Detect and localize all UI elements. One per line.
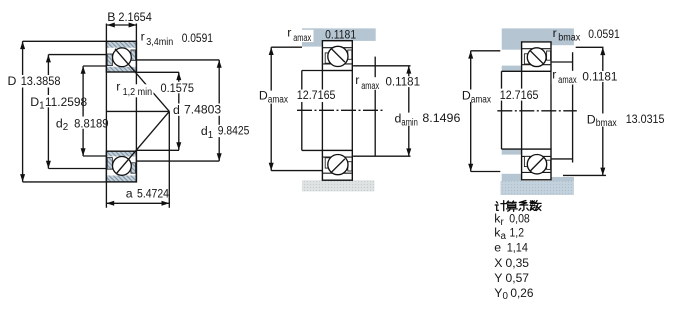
arrow Damax top	[269, 47, 274, 55]
ball contact slash	[530, 158, 543, 171]
arrowheads	[20, 23, 605, 206]
svg-text:0.1181: 0.1181	[386, 74, 421, 88]
shaft shoulder face line	[374, 57, 376, 157]
top bearing outline box	[322, 41, 352, 71]
ball	[328, 155, 348, 175]
housing shoulder block top-left (blue)	[502, 41, 522, 50]
ball	[328, 46, 348, 66]
arrow damin top	[406, 66, 411, 74]
housing top band (blue)	[502, 28, 574, 41]
left face line	[105, 24, 107, 208]
arrow D top	[20, 41, 25, 49]
arrow d2 bottom	[81, 148, 86, 156]
svg-text:9.8425: 9.8425	[218, 124, 250, 138]
svg-text:7.4803: 7.4803	[184, 103, 221, 117]
shaft shoulder strip left lower (blue)	[502, 149, 522, 155]
svg-text:Y: Y	[494, 271, 502, 285]
svg-text:0,26: 0,26	[510, 286, 533, 300]
svg-text:11.2598: 11.2598	[45, 95, 87, 109]
arrow a right	[162, 201, 170, 206]
svg-text:13.3858: 13.3858	[21, 74, 61, 88]
shaft shoulder strip left upper (blue)	[502, 66, 522, 72]
svg-text:8.1496: 8.1496	[422, 111, 460, 125]
apex extension line	[168, 111, 170, 207]
ball contact slash	[331, 159, 345, 173]
bottom ball	[113, 157, 132, 176]
arrow d1 bottom	[217, 153, 222, 161]
arrow Damax2 bottom	[468, 164, 473, 172]
arrow Dbmax bottom	[600, 168, 605, 176]
arrow d1 top	[217, 60, 222, 68]
text background patches	[4, 30, 619, 199]
bottom bearing outline box	[522, 149, 551, 180]
dimension Damax line	[471, 51, 501, 172]
svg-text:1,2: 1,2	[510, 226, 525, 240]
contact angle line A	[115, 49, 169, 112]
svg-text:0,08: 0,08	[509, 212, 530, 226]
arrow d top	[176, 72, 181, 80]
axis centerline	[106, 110, 169, 112]
svg-text:8.8189: 8.8189	[74, 116, 109, 130]
housing ledge bottom-right (blue)	[551, 177, 574, 181]
svg-text:0.1181: 0.1181	[325, 27, 356, 41]
dimension d line	[136, 72, 179, 150]
svg-text:12.7165: 12.7165	[500, 88, 539, 102]
dimension d1 line	[136, 60, 219, 161]
dimension d2 line	[83, 66, 106, 156]
svg-text:B: B	[107, 10, 115, 24]
axis centerline	[497, 110, 577, 112]
svg-text:d: d	[173, 103, 180, 117]
ball contact slash	[331, 48, 345, 62]
dimension D line	[23, 41, 107, 182]
svg-text:a: a	[126, 187, 133, 201]
contact angle line B	[116, 111, 169, 174]
dimension Damax line	[271, 47, 322, 170]
bore silhouette lines	[322, 71, 352, 151]
dimension B line	[107, 24, 136, 26]
arrow D bottom	[20, 174, 25, 182]
table heading (calculation factors, CJK strokes)	[495, 201, 541, 212]
svg-text:0,35: 0,35	[506, 256, 530, 270]
axis centerline	[297, 109, 384, 111]
arrow d bottom	[176, 142, 181, 150]
svg-text:e: e	[494, 241, 501, 255]
svg-text:X: X	[494, 256, 502, 270]
arrow damin bottom	[406, 148, 411, 156]
arrow B right	[129, 23, 137, 28]
arrow B left	[107, 23, 115, 28]
bottom support band (dotted blue)	[501, 181, 574, 195]
top ball	[113, 48, 132, 67]
svg-text:12.7165: 12.7165	[297, 88, 336, 102]
svg-text:0.1181: 0.1181	[582, 69, 617, 83]
dimension a line	[106, 202, 169, 204]
ball contact slash	[530, 51, 543, 64]
shaft support block (dotted gray)	[302, 180, 375, 191]
dimension damin line	[353, 66, 410, 156]
dimension Dbmax line	[563, 47, 606, 175]
svg-text:0.1575: 0.1575	[161, 81, 195, 95]
housing ledge top-right (blue)	[551, 41, 574, 45]
arrow Damax bottom	[269, 163, 274, 171]
arrow a left	[106, 201, 114, 206]
svg-text:D: D	[8, 74, 17, 88]
housing shoulder band (blue)	[302, 28, 376, 41]
ball	[527, 155, 546, 174]
svg-text:0,57: 0,57	[506, 271, 530, 285]
arrow Dbmax top	[600, 47, 605, 55]
right face line	[135, 24, 137, 182]
housing shoulder block bottom-left (blue)	[502, 174, 522, 181]
top bearing outline box	[522, 42, 551, 71]
arrow D1 top	[46, 55, 51, 63]
svg-text:13.0315: 13.0315	[626, 112, 665, 126]
top ring section (hatched)	[106, 41, 136, 72]
shaft outline	[302, 71, 323, 151]
svg-text:0.0591: 0.0591	[588, 27, 620, 41]
shaft outline	[502, 71, 522, 149]
bottom ring section (hatched)	[106, 151, 136, 182]
dimension D1 line	[48, 55, 106, 169]
arrow D1 bottom	[46, 161, 51, 169]
arrow d2 top	[81, 66, 86, 74]
svg-text:0.0591: 0.0591	[182, 31, 213, 45]
svg-text:1,14: 1,14	[507, 241, 528, 255]
housing shoulder block (blue)	[302, 28, 322, 46]
bottom bearing outline box	[322, 150, 352, 180]
bore silhouette lines	[522, 71, 551, 149]
ball	[527, 48, 546, 67]
arrow Damax2 top	[468, 51, 473, 59]
shaft shoulder lines	[551, 52, 573, 162]
svg-text:2.1654: 2.1654	[118, 10, 152, 24]
svg-text:5.4724: 5.4724	[137, 186, 169, 200]
